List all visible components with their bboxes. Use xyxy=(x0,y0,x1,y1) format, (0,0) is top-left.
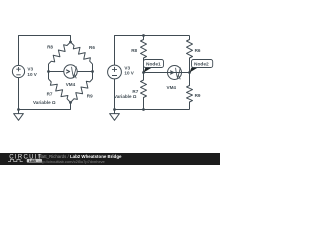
wire meter right lead (left circuit) xyxy=(77,71,92,73)
wire left circuit top rail xyxy=(19,36,71,66)
wire meter right lead (right circuit) xyxy=(181,72,189,74)
voltmeter VM4 (left circuit) xyxy=(64,65,77,78)
node top (left bridge) xyxy=(69,41,72,44)
wire left circuit bottom rail xyxy=(19,78,71,114)
svg-text:R9: R9 xyxy=(87,93,93,98)
svg-text:Variable Ω: Variable Ω xyxy=(114,94,137,99)
node left (left bridge) xyxy=(47,70,50,73)
node bottom (left bridge) xyxy=(69,101,72,104)
svg-text:V3: V3 xyxy=(27,67,33,72)
node top rail tap (right circuit) xyxy=(142,34,145,37)
node Node1 (right circuit) xyxy=(142,71,145,74)
resistor R8 (left circuit) xyxy=(49,42,71,64)
ground (left circuit) xyxy=(14,114,24,121)
wire left bridge vertical jog right xyxy=(92,64,94,79)
voltage source V3 (right circuit) xyxy=(108,65,122,79)
resistor R9 (right circuit) xyxy=(187,73,193,110)
footer bar xyxy=(0,153,220,165)
CircuitLab logo xyxy=(8,155,43,164)
ground (right circuit) xyxy=(110,114,120,121)
svg-text:10 V: 10 V xyxy=(27,72,37,77)
resistor R7 (left circuit) xyxy=(49,79,71,103)
svg-text:VM4: VM4 xyxy=(66,82,76,87)
resistor R6 (left circuit) xyxy=(71,42,93,64)
resistor R9 (left circuit) xyxy=(71,79,93,103)
node ground tap (right circuit) xyxy=(113,108,116,111)
svg-text:R7: R7 xyxy=(47,92,53,97)
svg-text:LAB: LAB xyxy=(29,159,37,163)
svg-text:R6: R6 xyxy=(89,45,95,50)
wire meter left lead (right circuit) xyxy=(144,72,190,74)
resistor R8 (right circuit) xyxy=(141,36,147,73)
node ground tap (left circuit) xyxy=(17,108,20,111)
resistor R7 (right circuit) xyxy=(141,73,147,110)
wire right circuit bottom rail xyxy=(115,79,190,114)
wire left bridge vertical jog left xyxy=(48,64,50,79)
node right (left bridge) xyxy=(91,70,94,73)
wire meter left lead (left circuit) xyxy=(49,71,64,73)
svg-text:VM4: VM4 xyxy=(167,85,177,90)
svg-text:Node1: Node1 xyxy=(146,62,161,68)
svg-text:R9: R9 xyxy=(195,93,201,98)
svg-text:http://circuitlab.com/c2i5u7p7: http://circuitlab.com/c2i5u7p7dvnhxve xyxy=(38,159,105,164)
svg-text:R8: R8 xyxy=(131,48,137,53)
svg-text:R8: R8 xyxy=(47,45,53,50)
svg-text:Variable Ω: Variable Ω xyxy=(33,100,56,105)
svg-text:Node2: Node2 xyxy=(194,62,209,68)
svg-text:R6: R6 xyxy=(195,48,201,53)
svg-text:10 V: 10 V xyxy=(124,70,134,75)
voltage source V3 (left circuit) xyxy=(12,65,24,77)
wire right circuit left branch and top rail xyxy=(115,36,190,66)
voltmeter VM4 (right circuit) xyxy=(168,66,182,80)
node label Node2 flag xyxy=(190,60,213,73)
node bottom rail tap R7 (right circuit) xyxy=(142,108,145,111)
node label Node1 flag xyxy=(144,60,164,73)
resistor R6 (right circuit) xyxy=(187,36,193,73)
node Node2 (right circuit) xyxy=(188,71,191,74)
